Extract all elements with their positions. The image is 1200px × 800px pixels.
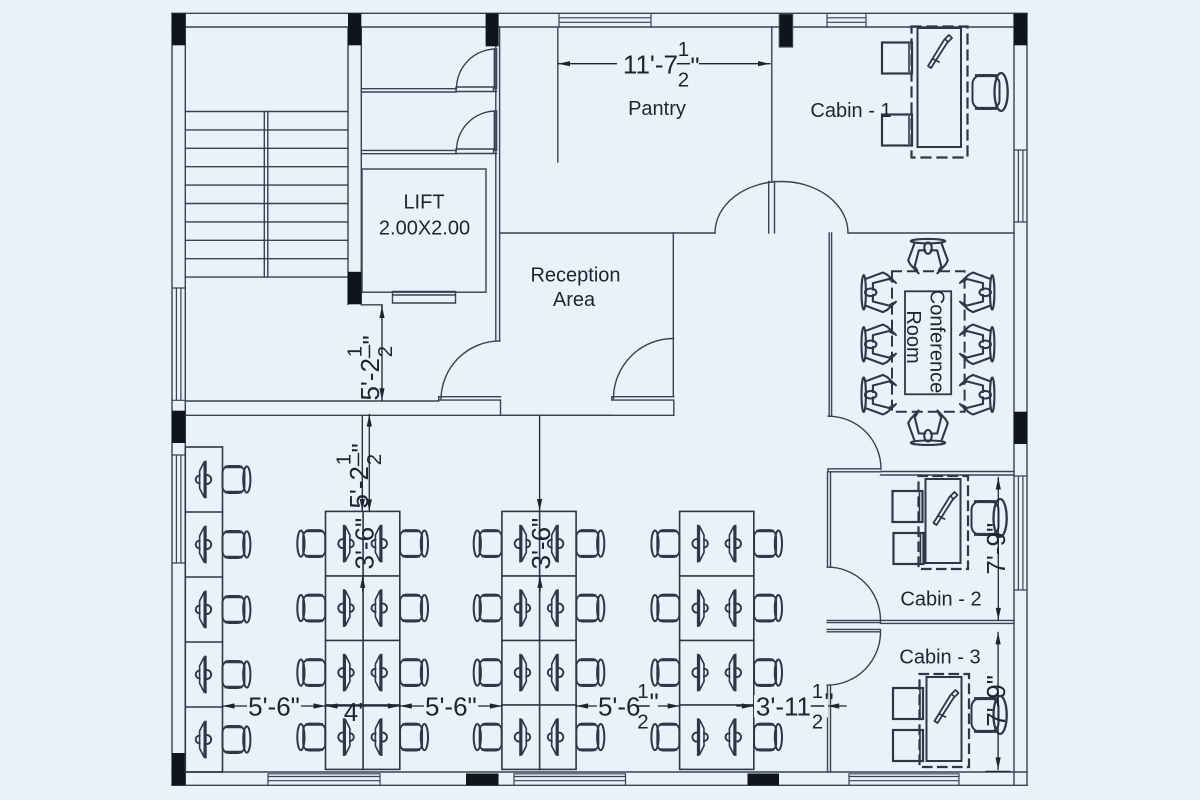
- text dim 5-6 b: [424, 692, 478, 722]
- svg-text:Area: Area: [553, 289, 596, 311]
- dim 4ft line: [326, 705, 400, 707]
- desk block west column: [185, 447, 222, 772]
- svg-text:Reception: Reception: [530, 265, 620, 287]
- window left office: [172, 455, 185, 563]
- svg-text:11'-7: 11'-7: [623, 49, 678, 79]
- svg-text:4': 4': [344, 697, 363, 727]
- desk row lines west column: [185, 512, 222, 707]
- chair conference top: [908, 239, 948, 273]
- monitor desk W5: [196, 721, 211, 759]
- column bottom-left corner: [172, 753, 185, 785]
- svg-text:5'-6: 5'-6: [598, 692, 641, 722]
- wall hall north west: [500, 232, 715, 234]
- svg-text:2: 2: [812, 711, 823, 734]
- wall reception south recessed: [501, 414, 612, 416]
- wall conference south: [881, 472, 1015, 476]
- wall cabin2-3 divider: [881, 620, 1015, 623]
- wall cabins west upper: [828, 472, 831, 567]
- svg-text:": ": [346, 443, 376, 452]
- svg-text:5'-2: 5'-2: [344, 466, 374, 509]
- dim corridor 5-2.5 line: [368, 415, 370, 512]
- table conference: [905, 291, 951, 394]
- column top-left corner: [172, 13, 185, 45]
- door hall arch: [715, 181, 848, 232]
- text dim 5-6 a: [247, 692, 301, 722]
- svg-text:2: 2: [637, 711, 648, 734]
- chair desk W5: [223, 726, 251, 753]
- wall right outer: [1026, 13, 1028, 785]
- window left stair: [172, 288, 185, 400]
- wall conference west: [829, 233, 831, 416]
- desk block cluster1: [326, 511, 400, 769]
- wall reception south: [185, 400, 438, 402]
- column pantry divider: [779, 14, 792, 47]
- monitors cluster3 left: [692, 525, 707, 756]
- svg-text:2.00X2.00: 2.00X2.00: [379, 218, 470, 240]
- door cabin2: [827, 567, 880, 623]
- guest chair cabin1 b: [882, 115, 912, 146]
- step below lift: [361, 305, 382, 307]
- svg-text:Conference: Conference: [925, 290, 947, 393]
- wall bottom inner: [172, 771, 1027, 773]
- wall left inner: [184, 13, 186, 785]
- svg-text:1: 1: [637, 680, 648, 703]
- window top 2: [827, 13, 866, 27]
- office chair cabin1: [973, 73, 1008, 111]
- guest chair cabin3 b: [893, 730, 923, 761]
- chair conference bottom: [908, 411, 948, 445]
- wall office north: [185, 414, 674, 416]
- svg-text:": ": [825, 688, 834, 718]
- dim c1 3-6 upper leader: [361, 416, 363, 511]
- column top lift: [486, 13, 499, 46]
- chair conference R1: [960, 273, 994, 313]
- dim c2 3-6 lower leader: [539, 576, 541, 591]
- chair desk W2: [223, 531, 251, 558]
- column top-right corner: [1014, 13, 1027, 45]
- guest chair cabin2 a: [893, 491, 923, 522]
- door reception west: [441, 341, 500, 400]
- column bottom wall east: [748, 774, 780, 786]
- wall stair-lift right: [360, 27, 362, 304]
- svg-text:7'-9": 7'-9": [981, 675, 1011, 727]
- dim cabin2 7-9 line: [997, 478, 999, 620]
- sill reception west door: [439, 397, 501, 416]
- svg-text:": ": [650, 688, 659, 718]
- wall bottom outer: [172, 784, 1027, 786]
- desk cabin3: [920, 674, 970, 767]
- monitors cluster2 right: [548, 525, 563, 756]
- door cabin3: [827, 629, 880, 685]
- svg-text:1: 1: [678, 38, 689, 61]
- wall corridor west outer: [495, 27, 497, 340]
- sill toilet2 door: [456, 149, 497, 154]
- chair conference R3: [960, 375, 994, 415]
- lift door sill: [393, 292, 456, 304]
- wall hall north east: [848, 232, 1014, 234]
- dim cabin3 7-9 line: [997, 632, 999, 769]
- svg-text:Cabin - 3: Cabin - 3: [899, 647, 980, 669]
- desk cabin1 dashed surround: [912, 27, 968, 158]
- lift shaft box: [362, 169, 486, 292]
- svg-text:2: 2: [374, 346, 397, 357]
- door reception main: [614, 339, 674, 399]
- dim 5-6.5 line: [576, 705, 680, 707]
- column bottom wall west: [466, 774, 499, 786]
- office chair cabin2: [972, 499, 1007, 537]
- door toilet1: [457, 49, 497, 89]
- svg-text:3'-6": 3'-6": [349, 518, 379, 570]
- chairs cluster3 right: [754, 530, 782, 751]
- dim c2 3-6 upper leader: [539, 416, 541, 511]
- chair desk W4: [223, 661, 251, 688]
- column top stair: [348, 13, 361, 45]
- pen cabin1: [928, 35, 952, 68]
- svg-text:1: 1: [812, 680, 823, 703]
- svg-text:5'-6": 5'-6": [425, 692, 477, 722]
- desk row lines cluster2: [502, 511, 576, 769]
- chair desk W1: [223, 466, 251, 493]
- chair conference L2: [862, 325, 896, 365]
- wall toilet1 floor: [361, 89, 456, 92]
- svg-text:": ": [690, 51, 699, 81]
- window bottom 3: [849, 774, 959, 786]
- dim 5-6 a line: [223, 705, 326, 707]
- text dim stairhall: [344, 335, 398, 400]
- window right top: [1014, 150, 1027, 222]
- monitor desk W4: [196, 656, 211, 694]
- guest chair cabin3 a: [893, 688, 923, 719]
- monitor desk W3: [196, 591, 211, 629]
- monitors cluster2 left: [515, 525, 530, 756]
- guest chair cabin1 a: [882, 43, 912, 74]
- chair conference R2: [960, 325, 994, 365]
- chairs cluster1 left: [297, 530, 325, 751]
- monitor desk W1: [196, 461, 211, 499]
- svg-text:3'-11: 3'-11: [756, 692, 811, 722]
- svg-text:2: 2: [678, 68, 689, 91]
- desk row lines cluster3: [680, 576, 754, 705]
- svg-text:7'-9": 7'-9": [981, 523, 1011, 575]
- desk block cluster3: [680, 511, 754, 769]
- monitors cluster3 right: [726, 525, 741, 756]
- dim stairhall 5-2.5 line: [381, 306, 383, 400]
- wall pantry-cabin1 divider: [771, 27, 773, 182]
- window top 1: [559, 13, 651, 27]
- dim 5-6 b line: [400, 705, 502, 707]
- chair conference L1: [862, 273, 896, 313]
- svg-text:5'-2: 5'-2: [355, 358, 385, 401]
- svg-text:Cabin - 2: Cabin - 2: [900, 589, 981, 611]
- monitors cluster1 left: [338, 525, 353, 756]
- table conference dashed surround: [892, 271, 965, 412]
- dim cabin3 tick: [986, 770, 1010, 772]
- sill toilet1 door: [456, 87, 497, 92]
- chairs cluster1 right: [400, 530, 428, 751]
- wall top outer: [172, 12, 1027, 14]
- wall left outer: [171, 13, 173, 785]
- text dim 3-11.5: [754, 680, 834, 733]
- column left middle: [172, 411, 185, 443]
- dim c1 3-6 lower leader: [362, 576, 364, 591]
- column right middle: [1014, 412, 1027, 444]
- svg-text:2: 2: [363, 454, 386, 465]
- door conference: [828, 416, 881, 472]
- wall stair-lift left: [347, 27, 349, 304]
- chair desk W3: [223, 596, 251, 623]
- svg-text:LIFT: LIFT: [403, 192, 444, 214]
- wall pantry partition: [557, 28, 559, 162]
- svg-text:3'-6": 3'-6": [526, 518, 556, 570]
- wall toilet2 floor: [361, 150, 456, 153]
- window bottom 1: [268, 774, 380, 786]
- dim 3-11.5 right arrow: [827, 705, 846, 707]
- column stair bottom: [348, 272, 361, 305]
- text dim corridor: [333, 443, 387, 508]
- svg-text:Room: Room: [902, 310, 924, 363]
- window right cabin2: [1014, 476, 1027, 590]
- wall top inner: [172, 26, 1027, 28]
- chairs cluster2 left: [474, 530, 502, 751]
- svg-text:5'-6": 5'-6": [248, 692, 300, 722]
- desk row lines cluster1: [326, 511, 400, 769]
- desk cabin1: [918, 28, 962, 147]
- wall corridor west inner: [499, 27, 501, 340]
- chairs cluster3 left: [651, 530, 679, 751]
- chairs cluster2 right: [576, 530, 604, 751]
- wall reception east: [672, 233, 674, 396]
- text dim pantry: [617, 38, 700, 91]
- dim 3-11.5 left arrow: [737, 705, 754, 707]
- svg-text:": ": [357, 335, 387, 344]
- guest chair cabin2 b: [894, 533, 924, 564]
- desk block cluster2: [502, 511, 576, 769]
- door toilet2: [457, 111, 497, 150]
- svg-text:1: 1: [333, 454, 356, 465]
- svg-text:Cabin - 1: Cabin - 1: [810, 100, 891, 122]
- window bottom 2: [514, 774, 626, 786]
- chair conference L3: [862, 375, 896, 415]
- monitor desk W2: [196, 526, 211, 564]
- stair treads: [185, 112, 348, 278]
- stair stringer: [264, 112, 268, 278]
- svg-text:1: 1: [344, 346, 367, 357]
- wall right inner: [1013, 13, 1015, 785]
- office chair cabin3: [972, 696, 1007, 734]
- sill reception main door: [612, 397, 674, 416]
- wall cabins west lower: [828, 685, 831, 772]
- monitors cluster1 right: [372, 525, 387, 756]
- svg-text:Pantry: Pantry: [628, 98, 686, 120]
- desk cabin2: [919, 476, 969, 569]
- text dim 5-6.5: [597, 680, 659, 733]
- dim pantry line: [558, 63, 770, 65]
